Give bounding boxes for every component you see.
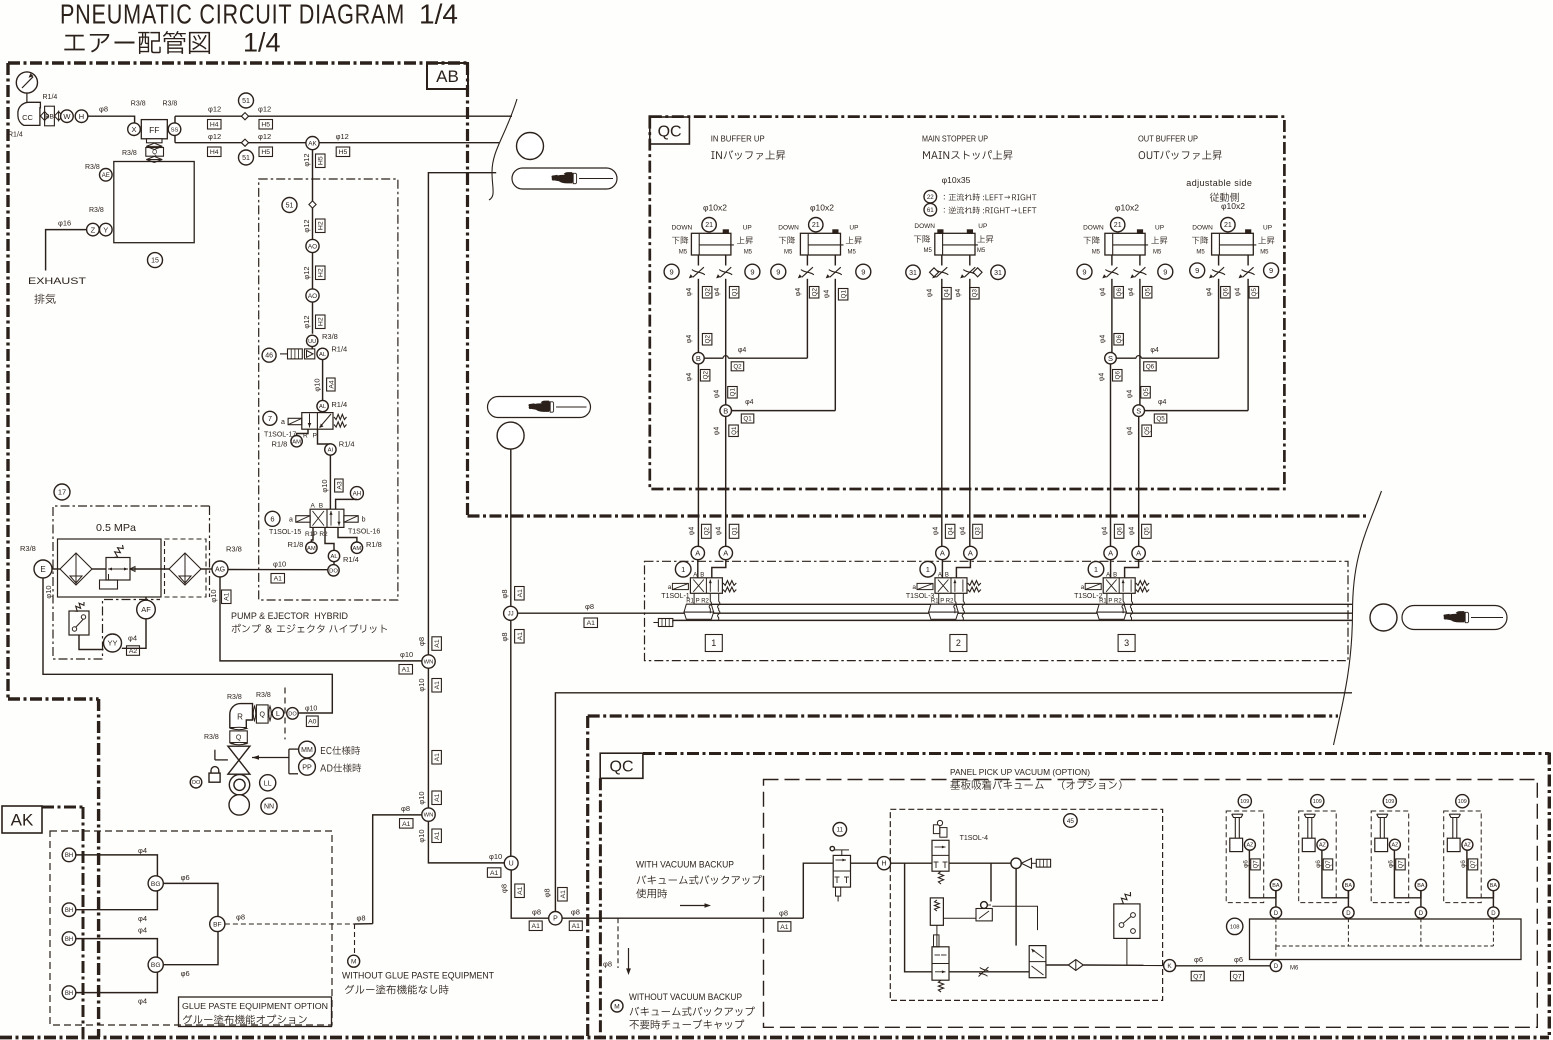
exhaust wire — [46, 230, 87, 271]
wire AZ 1 to BA — [1249, 850, 1276, 898]
fitting W — [61, 110, 74, 123]
wire AZ 2 to BA — [1322, 850, 1349, 898]
svg-text:R1/4: R1/4 — [331, 345, 347, 354]
manifold dashed box — [645, 561, 1349, 660]
wire JJ to manifold rail — [518, 612, 691, 614]
fitting Q right of R — [253, 706, 256, 721]
svg-text:IN BUFFER UP: IN BUFFER UP — [711, 134, 765, 144]
circle 9 a — [664, 264, 679, 279]
svg-text:R1 P R2: R1 P R2 — [1099, 598, 1122, 604]
dashed wire BF to junction — [225, 923, 355, 925]
svg-text:M5: M5 — [784, 249, 793, 255]
svg-text:φ12: φ12 — [258, 105, 271, 114]
compressor CC — [18, 102, 41, 125]
svg-text:3: 3 — [1124, 638, 1129, 648]
valve T1SOL station 3 — [1103, 578, 1135, 594]
svg-text:1: 1 — [681, 565, 685, 574]
svg-text:11: 11 — [836, 827, 843, 834]
svg-text:T1SOL-16: T1SOL-16 — [348, 528, 380, 535]
svg-text:M5: M5 — [924, 248, 933, 254]
svg-text:PUMP & EJECTOR HYBRID: PUMP & EJECTOR HYBRID — [231, 611, 348, 622]
port wires — [806, 255, 808, 266]
suction cup unit 1 circle 109 — [1238, 795, 1251, 808]
riser to valve 11 line — [803, 863, 833, 918]
svg-text:φ12: φ12 — [336, 132, 349, 141]
svg-text:AK: AK — [11, 811, 34, 830]
FRL solid box — [58, 539, 162, 597]
wires through FRL — [52, 568, 60, 570]
svg-text:AG: AG — [215, 567, 225, 574]
svg-text:P: P — [313, 433, 317, 440]
off-page connector circle right — [1370, 604, 1397, 631]
svg-text:AZ: AZ — [1319, 843, 1327, 849]
flow control DOWN — [1105, 270, 1118, 275]
svg-text:W: W — [63, 112, 71, 121]
circle 31 a — [906, 265, 920, 279]
svg-text:SS: SS — [171, 127, 179, 133]
svg-text:M: M — [614, 1003, 619, 1010]
circle 46 — [262, 348, 276, 362]
svg-text:φ4: φ4 — [688, 527, 695, 536]
svg-text:φ4: φ4 — [926, 289, 933, 298]
svg-text:φ8: φ8 — [571, 908, 580, 917]
wire UU down to valve7 — [311, 347, 313, 349]
svg-text:AZ: AZ — [1246, 843, 1254, 849]
svg-text:φ10: φ10 — [273, 560, 286, 569]
svg-text:51: 51 — [242, 98, 250, 105]
svg-text:Q4: Q4 — [947, 527, 954, 536]
svg-text:Q5: Q5 — [1156, 416, 1165, 423]
svg-text:A: A — [1136, 549, 1141, 558]
wires BH3-BG2 — [76, 939, 158, 958]
fitting U — [504, 856, 518, 870]
title エアー配管図 1/4 — [64, 31, 210, 54]
svg-text:9: 9 — [670, 267, 674, 276]
svg-text:φ8: φ8 — [417, 637, 426, 646]
port wires — [697, 255, 699, 266]
svg-text:D: D — [1491, 911, 1496, 917]
svg-text:BG: BG — [151, 962, 161, 969]
valve 11 manual — [833, 855, 850, 887]
wire x=428 vertical WN1-WN2 — [427, 637, 429, 655]
svg-text:A1: A1 — [780, 924, 789, 931]
circle 9 b — [745, 264, 760, 279]
circle 51 c — [282, 198, 297, 213]
svg-text:AO: AO — [308, 243, 317, 250]
svg-text:UP: UP — [1263, 224, 1272, 231]
fitting BA 2 — [1343, 879, 1354, 890]
wires BH1-BG1 — [76, 855, 158, 876]
svg-text:UP: UP — [978, 223, 987, 230]
svg-text:H5: H5 — [261, 149, 270, 156]
svg-text:BH: BH — [65, 853, 73, 859]
fitting AF — [145, 597, 147, 600]
svg-text:A3: A3 — [336, 481, 343, 490]
fitting BG 1 — [148, 876, 163, 891]
svg-text:A1: A1 — [402, 667, 411, 674]
wire P to riser — [562, 917, 803, 919]
svg-text:Q: Q — [236, 734, 242, 741]
circle 6 — [265, 511, 280, 526]
AK vertical — [312, 150, 314, 334]
fitting YY — [104, 634, 122, 652]
lower QC region left edge — [599, 778, 602, 1037]
svg-text:Z: Z — [91, 225, 96, 234]
svg-text:a: a — [1081, 584, 1085, 591]
svg-text:φ8: φ8 — [500, 632, 509, 641]
svg-text:Q7: Q7 — [1254, 860, 1260, 869]
valve 6 T1SOL-15/16 double solenoid — [310, 509, 344, 527]
flow control UP — [829, 270, 842, 275]
wire ejector down to selector — [1015, 869, 1017, 946]
svg-text:H4: H4 — [210, 149, 219, 156]
fitting DO below AL — [333, 562, 335, 565]
svg-text:φ4: φ4 — [1099, 373, 1106, 382]
svg-text:Q1: Q1 — [731, 426, 738, 435]
circle 1 station 2 — [920, 561, 936, 577]
circle 51 a — [239, 93, 254, 108]
svg-text:φ4: φ4 — [138, 846, 147, 855]
valve T1SOL station 1 — [690, 578, 722, 594]
svg-text:φ4: φ4 — [745, 399, 754, 406]
svg-text:φ12: φ12 — [258, 132, 271, 141]
suction cup 1 — [1232, 814, 1243, 838]
svg-text:H2: H2 — [318, 317, 325, 326]
pilot a station 1 — [672, 583, 688, 589]
svg-text:R1/4: R1/4 — [43, 94, 58, 101]
svg-text:S: S — [1108, 354, 1113, 363]
circle 1 station 1 — [675, 561, 691, 577]
svg-text:1/4: 1/4 — [419, 0, 458, 30]
svg-text:Q5: Q5 — [1144, 288, 1151, 297]
junction diamond pipe1 — [241, 113, 248, 120]
elbow fitting 1 — [1230, 838, 1243, 851]
fitting WN1 — [422, 655, 435, 668]
flow control DOWN — [692, 270, 705, 275]
sheet break curve left — [489, 99, 517, 200]
svg-text:46: 46 — [265, 353, 273, 360]
svg-text:adjustable side: adjustable side — [1186, 178, 1252, 188]
svg-text:Q7: Q7 — [1232, 973, 1241, 980]
fitting AL 1 — [317, 348, 328, 359]
svg-text:φ4: φ4 — [1099, 335, 1106, 344]
lower QC label box — [600, 753, 643, 778]
svg-text:D: D — [1419, 911, 1424, 917]
svg-text:E: E — [40, 565, 45, 574]
circle 61 — [924, 203, 937, 216]
svg-text:φ4: φ4 — [138, 914, 147, 923]
svg-text:9: 9 — [1163, 267, 1167, 276]
svg-text:R3/8: R3/8 — [89, 207, 104, 214]
svg-text:T1SOL-4: T1SOL-4 — [960, 835, 989, 842]
svg-text:AL: AL — [319, 404, 327, 410]
svg-text:A1: A1 — [490, 870, 499, 877]
svg-text:M5: M5 — [1092, 249, 1101, 255]
svg-text:H4: H4 — [210, 122, 219, 129]
manifold station 1 A circle L — [697, 560, 699, 578]
check bowtie below Q — [146, 156, 162, 162]
svg-text:φ6: φ6 — [181, 969, 190, 978]
manifold station 3 A circle L — [1110, 560, 1112, 578]
svg-text:φ10: φ10 — [209, 589, 218, 602]
svg-text:21: 21 — [705, 222, 713, 229]
pilot a station 2 — [917, 583, 933, 589]
buffer cylinder — [1105, 233, 1145, 255]
fitting D 4 — [1488, 907, 1499, 918]
svg-text:QC: QC — [610, 759, 634, 776]
valve 11 lever — [841, 850, 843, 856]
svg-text:AF: AF — [141, 605, 151, 614]
svg-text:φ10x2: φ10x2 — [810, 203, 834, 213]
svg-text:H2: H2 — [318, 268, 325, 277]
fitting H — [75, 110, 88, 123]
vacuum manifold rect — [1250, 919, 1522, 960]
valve 7 pilot — [288, 418, 302, 424]
svg-text:Q3: Q3 — [972, 289, 979, 298]
svg-text:31: 31 — [909, 270, 917, 277]
svg-text:PNEUMATIC CIRCUIT DIAGRAM: PNEUMATIC CIRCUIT DIAGRAM — [60, 0, 405, 30]
vacuum break valve — [932, 947, 949, 980]
svg-text:φ6: φ6 — [1242, 860, 1249, 868]
svg-text:1: 1 — [1094, 565, 1098, 574]
svg-text:9: 9 — [861, 267, 865, 276]
AB region border left lower — [97, 699, 100, 1037]
check valve bowtie — [40, 112, 48, 121]
svg-text:φ4: φ4 — [714, 288, 721, 297]
cross wire B2 to U2 — [732, 410, 836, 412]
padlock — [214, 750, 216, 760]
wire WN2 down to U — [428, 821, 504, 863]
needle right capped stub — [992, 906, 1037, 930]
svg-text:φ8: φ8 — [99, 105, 108, 114]
svg-text:φ4: φ4 — [960, 527, 967, 536]
fitting H 2 — [877, 857, 890, 870]
svg-text:OO: OO — [192, 780, 201, 786]
svg-text:φ6: φ6 — [181, 873, 190, 882]
fitting PP — [299, 758, 316, 775]
upper QC region box — [650, 117, 1285, 489]
svg-text:UU: UU — [308, 339, 316, 345]
svg-text:H2: H2 — [318, 221, 325, 230]
fitting AE — [100, 169, 113, 182]
svg-text:9: 9 — [776, 267, 780, 276]
svg-text:M5: M5 — [1196, 249, 1205, 255]
svg-text:φ10: φ10 — [417, 678, 426, 691]
hand pointer stadium mid-left — [488, 397, 591, 418]
svg-text:B: B — [319, 503, 323, 510]
suction cup unit 2 dashed box — [1299, 811, 1337, 903]
svg-text:φ4: φ4 — [716, 527, 723, 536]
wire up-right line U4 — [1139, 285, 1141, 405]
svg-text:φ6: φ6 — [1315, 860, 1322, 868]
off-page vertical to JJ — [510, 449, 512, 606]
svg-text:R3/8: R3/8 — [322, 332, 338, 341]
FRL regulator — [106, 558, 130, 581]
suction cup unit 3 dashed box — [1371, 811, 1409, 903]
rail muffler — [672, 620, 674, 622]
fitting AI — [318, 429, 331, 444]
svg-text:φ10x35: φ10x35 — [942, 175, 971, 185]
svg-text:H: H — [881, 861, 886, 868]
fitting D 1 — [1270, 907, 1281, 918]
manual shutoff valve — [228, 746, 250, 774]
elbow fitting 3 — [1375, 838, 1388, 851]
svg-text:A0: A0 — [308, 719, 317, 726]
suction cup unit 2 circle 109 — [1311, 795, 1324, 808]
svg-text:R3/8: R3/8 — [256, 692, 271, 699]
svg-text:22: 22 — [927, 194, 934, 201]
fitting AH — [350, 487, 363, 500]
wire U2 left port down — [806, 285, 808, 358]
svg-text:Q7: Q7 — [1326, 860, 1332, 869]
fitting LL — [260, 775, 276, 791]
drain bellows station 1 — [684, 604, 714, 612]
wires to rails station 1 — [693, 593, 695, 604]
manifold rail P — [690, 612, 1352, 614]
pilot a station 3 — [1085, 583, 1101, 589]
spring station 3 — [1136, 581, 1149, 586]
quick coupler circles — [229, 775, 249, 795]
svg-text:21: 21 — [1224, 222, 1232, 229]
svg-text:φ4: φ4 — [686, 373, 693, 382]
regulator mid — [930, 898, 943, 925]
wire AZ 3 to BA — [1394, 850, 1421, 898]
svg-text:φ6: φ6 — [1194, 955, 1203, 964]
svg-text:φ4: φ4 — [1101, 527, 1108, 536]
svg-text:Q: Q — [260, 712, 266, 719]
wire AI to valve6 — [329, 455, 331, 509]
AB region border bottom — [0, 1036, 1549, 1040]
svg-text:φ4: φ4 — [1126, 390, 1133, 399]
fitting MM — [299, 741, 316, 758]
svg-text:φ4: φ4 — [1206, 288, 1213, 297]
fitting AZ 3 — [1389, 839, 1400, 850]
circle 9 g — [1190, 263, 1205, 278]
svg-text:A: A — [723, 549, 728, 558]
svg-text:φ12: φ12 — [302, 315, 311, 328]
svg-text:Y: Y — [103, 225, 108, 234]
svg-text:A1: A1 — [572, 923, 581, 930]
svg-text:DOWN: DOWN — [778, 224, 799, 231]
glue paste label box — [179, 997, 332, 1027]
svg-text:UP: UP — [849, 224, 858, 231]
muffler at AL — [280, 353, 288, 355]
wire AG to DO — [228, 569, 328, 571]
wire BA to D 2 — [1347, 891, 1349, 907]
fitting B 2 — [720, 405, 732, 417]
fitting SS — [168, 123, 181, 136]
svg-text:109: 109 — [1313, 799, 1322, 805]
svg-text:AI: AI — [328, 448, 334, 454]
dashed option divider — [284, 688, 286, 740]
svg-text:φ10x2: φ10x2 — [1115, 203, 1139, 213]
fitting WN2 — [422, 808, 435, 821]
wires to rails station 2 — [938, 593, 940, 604]
svg-text:OUT BUFFER UP: OUT BUFFER UP — [1138, 134, 1198, 144]
svg-text:φ10: φ10 — [44, 585, 53, 598]
fitting BH 1 — [62, 848, 76, 862]
svg-text:D: D — [1274, 911, 1279, 917]
svg-text:BH: BH — [65, 937, 73, 943]
svg-text:A1: A1 — [434, 753, 441, 762]
hand pointer stadium right — [1402, 606, 1507, 630]
svg-text:1: 1 — [711, 638, 716, 648]
circle 45 — [1064, 814, 1078, 828]
T1SOL-4 spring below — [938, 871, 943, 884]
AB label box — [427, 63, 468, 89]
drain bellows station 2 — [929, 604, 959, 612]
FRL filter diamond 2 — [169, 553, 201, 585]
svg-text:T1SOL-15: T1SOL-15 — [269, 529, 301, 536]
svg-text:Q1: Q1 — [743, 416, 752, 423]
svg-text:R1/8: R1/8 — [272, 440, 288, 449]
valve 11 drain stub — [836, 887, 841, 896]
wire U down to P — [511, 870, 549, 918]
svg-text:51: 51 — [286, 203, 294, 210]
svg-text:U: U — [509, 861, 514, 868]
fitting BG 2 — [148, 957, 163, 972]
air tank 15 — [114, 162, 194, 243]
ejector — [1011, 858, 1021, 868]
svg-text:A: A — [1108, 549, 1113, 558]
junction diamond pipe2 — [241, 139, 248, 146]
wire vacbreak to restrictor to selector — [949, 971, 1029, 973]
svg-text:AM: AM — [353, 546, 362, 552]
circle 22 — [924, 190, 937, 203]
svg-text:φ10: φ10 — [417, 791, 426, 804]
svg-text:R3/8: R3/8 — [163, 101, 178, 108]
svg-text:H: H — [79, 112, 84, 121]
svg-text:Q2: Q2 — [704, 288, 711, 297]
circle 9 c — [771, 264, 786, 279]
glue paste dashed box — [50, 831, 332, 1025]
svg-text:Q6: Q6 — [1116, 288, 1123, 297]
svg-text:R1/8: R1/8 — [366, 540, 382, 549]
junction to WN riser — [355, 923, 373, 925]
svg-text:H5: H5 — [339, 149, 348, 156]
svg-text:R3/8: R3/8 — [20, 544, 36, 553]
fitting UU — [307, 335, 318, 346]
svg-text:AB: AB — [436, 67, 459, 86]
valve 6 pilot b — [344, 516, 358, 523]
svg-text:B: B — [723, 406, 728, 415]
fitting S 1 — [1105, 352, 1117, 364]
svg-text:A1: A1 — [517, 632, 524, 641]
svg-text:φ4: φ4 — [955, 289, 962, 298]
fitting E — [34, 560, 52, 578]
svg-text:DOWN: DOWN — [1083, 224, 1104, 231]
svg-text:PANEL PICK UP VACUUM (OPTION): PANEL PICK UP VACUUM (OPTION) — [950, 767, 1090, 777]
svg-text:A1: A1 — [402, 821, 411, 828]
svg-text:A1: A1 — [517, 589, 524, 598]
elbow fitting 4 — [1447, 838, 1460, 851]
svg-text:φ12: φ12 — [208, 132, 221, 141]
svg-text:φ4: φ4 — [714, 427, 721, 436]
valve T1SOL station 2 — [935, 578, 967, 594]
fitting DO 2 — [287, 708, 299, 720]
station number box 2 — [950, 635, 967, 652]
dashed branch to M glue — [354, 924, 356, 955]
svg-text:R1/4: R1/4 — [8, 132, 23, 139]
svg-text:M5: M5 — [679, 249, 688, 255]
svg-text:φ4: φ4 — [686, 288, 693, 297]
fitting S 2 — [1133, 405, 1145, 417]
fitting AZ 2 — [1317, 839, 1328, 850]
station number box 3 — [1118, 635, 1135, 652]
svg-text:φ4: φ4 — [138, 926, 147, 935]
svg-text:M6: M6 — [1290, 966, 1299, 972]
circle 15 — [148, 253, 163, 268]
